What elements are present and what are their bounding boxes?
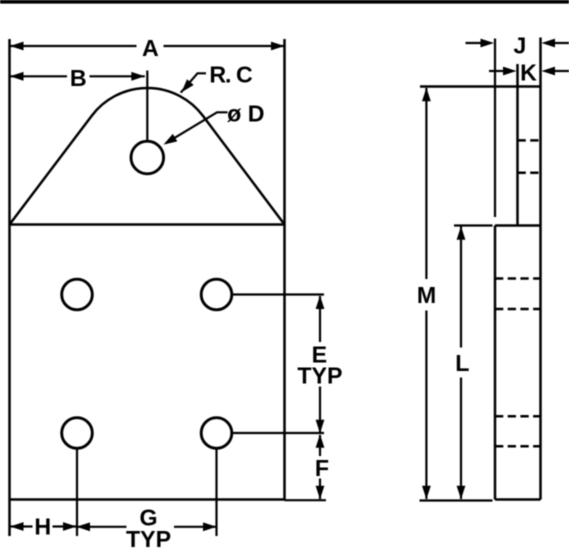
label dia D xyxy=(227,100,264,126)
plate bottom edge xyxy=(10,498,285,501)
hidden line upper holes bottom xyxy=(495,308,541,311)
svg-text:J: J xyxy=(513,33,526,59)
svg-text:TYP: TYP xyxy=(126,526,171,552)
label R. C xyxy=(209,62,253,88)
side view top edge + M extension xyxy=(420,85,541,88)
lower-left hole extension xyxy=(76,449,78,537)
svg-text:A: A xyxy=(142,35,159,61)
label K xyxy=(520,60,537,86)
label H xyxy=(34,514,51,540)
side view tab left edge / K extension xyxy=(516,64,519,226)
M/L bottom extension line xyxy=(420,499,493,501)
top hole center line xyxy=(146,71,148,142)
lower-right hole extension xyxy=(215,449,217,537)
svg-text:M: M xyxy=(417,282,436,308)
dimension A line xyxy=(10,42,285,51)
L top extension line xyxy=(454,224,493,226)
leader lower-right hole to E/F xyxy=(232,432,324,434)
tab outline (tangent lines + arc radius C) xyxy=(10,88,285,224)
dimension F line xyxy=(316,434,325,499)
side view right edge / extension xyxy=(539,38,542,500)
dimension B line xyxy=(10,72,145,81)
hidden line lower holes top xyxy=(495,415,541,418)
side view body left edge xyxy=(494,226,497,500)
dimension L line xyxy=(457,226,466,499)
svg-text:TYP: TYP xyxy=(297,363,342,389)
leader dia D xyxy=(164,112,228,144)
label F xyxy=(315,455,329,481)
dimension M line xyxy=(422,88,431,500)
label B xyxy=(70,65,87,91)
hidden line lower holes bottom xyxy=(495,445,541,448)
side view body top edge xyxy=(495,224,541,227)
lower-right hole xyxy=(201,418,232,449)
svg-text:R. C: R. C xyxy=(209,62,253,88)
dimension K line xyxy=(489,67,569,76)
dimension E line xyxy=(316,296,325,434)
leader upper-right hole to E xyxy=(232,293,324,295)
hidden line upper holes top xyxy=(495,277,541,280)
label E TYP xyxy=(297,363,342,389)
J left extension line xyxy=(494,39,496,218)
top border bar xyxy=(0,0,569,4)
label G xyxy=(139,505,157,531)
label M xyxy=(417,282,436,308)
hidden line top hole lower xyxy=(518,171,541,174)
plate right edge / extension line xyxy=(283,39,286,500)
svg-text:K: K xyxy=(520,60,537,86)
bottom edge extension for F xyxy=(285,499,327,501)
dimension G line xyxy=(77,522,217,531)
label G TYP xyxy=(126,526,171,552)
label L xyxy=(455,350,469,376)
dimension J line xyxy=(466,39,569,48)
dimension H line xyxy=(10,522,77,531)
svg-text:F: F xyxy=(315,455,329,481)
plate left edge / extension line xyxy=(8,39,11,536)
leader R.C xyxy=(181,73,206,92)
svg-text:ø D: ø D xyxy=(227,100,264,126)
lower-left hole xyxy=(62,418,93,449)
top hole (dia D) xyxy=(131,141,164,174)
upper-left hole xyxy=(62,279,93,310)
svg-text:B: B xyxy=(70,65,87,91)
label A xyxy=(142,35,159,61)
side view body bottom edge xyxy=(495,498,541,501)
label J xyxy=(513,33,526,59)
label E xyxy=(312,341,327,367)
svg-text:L: L xyxy=(455,350,469,376)
plate shoulder line xyxy=(10,223,285,226)
svg-text:H: H xyxy=(34,514,51,540)
hidden line top hole upper xyxy=(518,139,541,142)
upper-right hole xyxy=(201,279,232,310)
